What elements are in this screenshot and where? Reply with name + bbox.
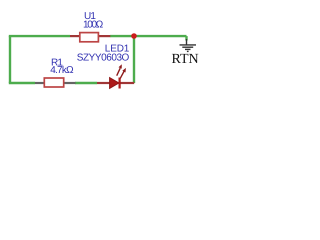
LED D1 cathode lead xyxy=(120,82,134,84)
wire: top rail right segment (U1 pin to ground) xyxy=(110,35,187,37)
ground symbol bar 4 xyxy=(187,50,189,52)
LED D1 anode lead xyxy=(97,82,110,84)
label U1 value 100Ω xyxy=(83,20,104,31)
label LED1 designator xyxy=(105,44,130,55)
resistor R1 body xyxy=(44,78,63,87)
wire: bottom rail left segment (corner to R1 pin) xyxy=(9,82,35,84)
svg-text:4.7kΩ: 4.7kΩ xyxy=(50,65,74,76)
resistor U1 body xyxy=(80,33,99,42)
label R1 value 4.7kΩ xyxy=(50,65,74,76)
resistor U1 pin 1 xyxy=(70,35,80,37)
svg-text:SZYY0603O: SZYY0603O xyxy=(77,52,130,63)
label U1 designator xyxy=(84,11,96,22)
svg-text:RTN: RTN xyxy=(172,52,199,67)
resistor R1 pin 1 xyxy=(35,82,45,84)
LED D1 cathode bar xyxy=(118,78,120,89)
svg-text:100Ω: 100Ω xyxy=(83,20,104,31)
label LED1 value SZYY0603O xyxy=(77,52,130,63)
label RTN net xyxy=(172,52,199,67)
resistor U1 pin 2 xyxy=(98,35,110,37)
label R1 designator xyxy=(51,58,63,69)
LED D1 emission arrow 2 xyxy=(120,68,126,79)
ground symbol stem xyxy=(186,39,188,45)
resistor R1 pin 2 xyxy=(64,82,76,84)
wire: ground stub vertical xyxy=(185,36,187,40)
ground symbol bar 3 xyxy=(185,48,191,50)
ground symbol bar 1 xyxy=(180,44,197,46)
wire: left vertical rail xyxy=(9,36,11,83)
LED D1 emission arrow 1 xyxy=(117,64,122,76)
ground symbol bar 2 xyxy=(182,46,193,48)
wire: top rail left segment (corner to U1 pin) xyxy=(9,35,70,37)
LED D1 triangle xyxy=(110,78,119,89)
wire: vertical from junction down to LED xyxy=(133,36,135,83)
wire: bottom rail middle segment (R1 pin to LED pin) xyxy=(75,82,97,84)
junction dot xyxy=(131,33,137,39)
